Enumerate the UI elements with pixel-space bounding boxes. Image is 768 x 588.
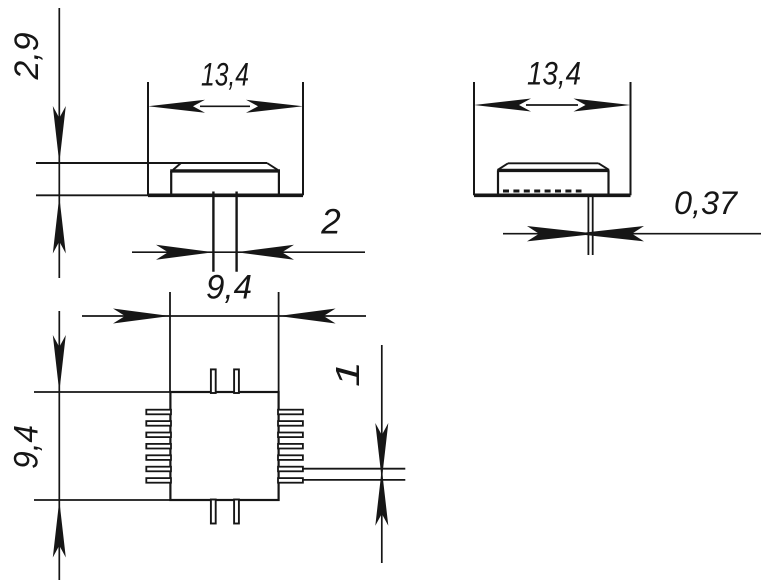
right pin stub 4 <box>278 444 303 449</box>
lid right chamfer <box>599 163 609 169</box>
extension line for 2,9 (bottom, seating plane) <box>36 194 148 196</box>
left pin stub 3 <box>146 433 171 438</box>
arrowhead down at body top <box>53 335 66 392</box>
lid flange (thick) <box>170 169 280 172</box>
vertical dimension line 1 <box>381 345 383 563</box>
right pin stub 2 <box>278 421 303 426</box>
dimension line 13,4 <box>526 104 578 106</box>
right pin stub 7 <box>278 478 303 483</box>
body outline (bottom view) <box>170 392 278 500</box>
lid left chamfer <box>498 163 508 169</box>
bottom pin 2 <box>234 500 239 524</box>
svg-text:0,37: 0,37 <box>674 185 738 221</box>
left pin stub 5 <box>146 455 171 460</box>
lid right chamfer <box>267 163 278 170</box>
svg-text:13,4: 13,4 <box>201 57 249 93</box>
dimension line 13,4 <box>200 105 250 107</box>
svg-text:9,4: 9,4 <box>8 425 46 469</box>
extension of body top edge to the left <box>34 391 170 393</box>
hidden pin row (dashes) <box>503 190 582 193</box>
left pin stub 6 <box>146 467 171 472</box>
left pin stub 4 <box>146 444 171 449</box>
svg-text:1: 1 <box>329 361 366 387</box>
vertical dimension line 2,9 (upper segment) <box>58 8 60 278</box>
left pin stub 7 <box>146 478 171 483</box>
body right side <box>607 170 609 193</box>
pin left (side view) <box>212 192 214 272</box>
arrowhead up crossing lead <box>375 469 388 526</box>
extension line left of 13,4 <box>473 82 475 195</box>
arrowhead left (points left) <box>148 100 205 113</box>
dimension line 0,37 <box>503 233 761 235</box>
arrowhead up at seating level <box>53 197 66 254</box>
long lead top edge <box>303 468 405 470</box>
arrowhead up at body bottom <box>53 501 66 558</box>
extension line right of 13,4 (package base edge) <box>302 82 304 195</box>
left pin stub 2 <box>146 421 171 426</box>
top pin 1 <box>211 369 216 393</box>
svg-text:13,4: 13,4 <box>527 56 581 92</box>
dimension line 9,4 horizontal <box>82 315 366 317</box>
pin left edge <box>587 197 589 255</box>
right pin stub 1 <box>278 410 303 415</box>
extension line up from body left edge <box>169 292 171 392</box>
seating base line (thick) <box>148 194 303 198</box>
long lead bottom edge <box>303 479 405 481</box>
lid flange (thick) <box>497 169 609 172</box>
svg-text:2: 2 <box>320 203 340 242</box>
svg-text:2,9: 2,9 <box>8 32 46 80</box>
svg-text:9,4: 9,4 <box>206 269 252 307</box>
arrowhead down at lid top level <box>53 106 66 163</box>
dimension line for pin spacing 2 <box>132 251 365 253</box>
extension line up from body right edge <box>278 292 280 392</box>
arrowhead pointing right at left edge <box>113 309 170 324</box>
body left side <box>170 171 172 194</box>
arrowhead right (points right) <box>574 99 631 112</box>
arrowhead right (points right) <box>246 100 303 113</box>
lid top line + extension line for 2,9 (top) <box>36 162 267 164</box>
extension of body bottom edge to the left <box>34 499 170 501</box>
extension line right of 13,4 <box>630 82 632 195</box>
top pin 2 <box>234 369 239 393</box>
arrowhead pointing left crossing pin <box>574 226 644 241</box>
left pin stub 1 <box>146 410 171 415</box>
seating base line (thick) <box>474 194 631 198</box>
arrowhead pointing left at right pin <box>237 245 294 260</box>
body right side <box>278 171 280 194</box>
right pin stub 3 <box>278 433 303 438</box>
arrowhead down crossing lead <box>375 423 388 480</box>
body left side <box>497 170 499 193</box>
bottom pin 1 <box>211 500 216 524</box>
right pin stub 6 <box>278 467 303 472</box>
lid left chamfer <box>173 163 181 170</box>
arrowhead pointing right crossing pin <box>527 226 597 241</box>
vertical dimension line 9,4 (lower segment) <box>58 311 60 580</box>
pin right (side view) <box>235 192 237 272</box>
lid top line <box>508 162 599 164</box>
arrowhead pointing left at right edge <box>279 309 336 324</box>
right pin stub 5 <box>278 455 303 460</box>
arrowhead left (points left) <box>474 99 531 112</box>
pin right edge <box>592 197 594 255</box>
extension line left of 13,4 (package base edge) <box>147 82 149 195</box>
arrowhead pointing right at left pin <box>156 245 213 260</box>
